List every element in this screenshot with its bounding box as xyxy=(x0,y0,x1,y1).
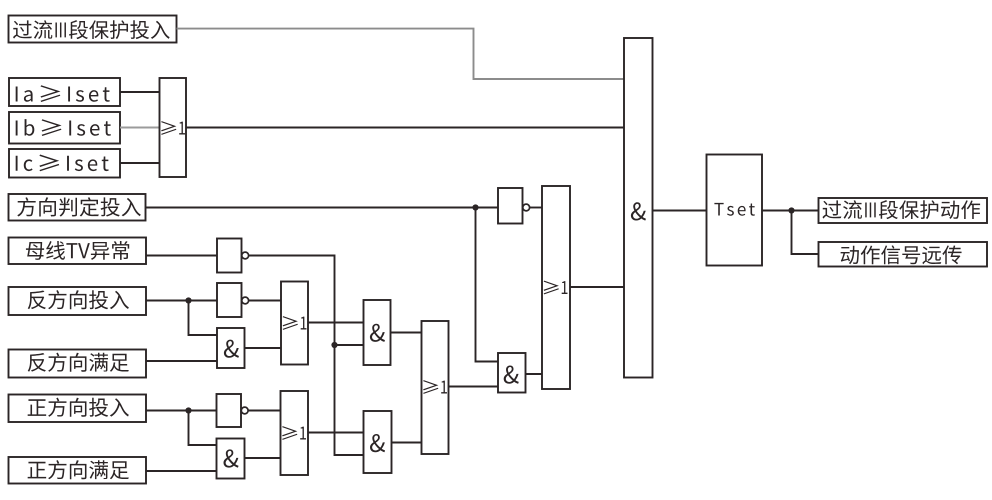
wire: Ic to OR U1 xyxy=(120,162,160,164)
wire: 过流III段保护投入 to main AND U8 xyxy=(177,29,625,79)
wire: AND U5c to OR U5 xyxy=(392,442,422,444)
bubble of NOT U2b xyxy=(242,297,249,304)
node: junction on 方向判定投入 line xyxy=(472,204,478,210)
input box: Ic>=Iset xyxy=(9,149,120,178)
wire: Ia to OR U1 xyxy=(120,91,160,93)
wire: junction to AND U4 xyxy=(335,344,364,346)
wire: junction down to AND U2c xyxy=(189,301,218,336)
input box: 母线TV异常 xyxy=(9,238,147,265)
or-gate U1 (>=1, phase currents) xyxy=(160,78,187,177)
wire: 方向判定投入 to NOT U2 xyxy=(146,207,499,209)
output box: 动作信号远传 xyxy=(819,242,988,267)
or-gate U7 (tall >=1) xyxy=(542,186,570,389)
not-gate U4b (正方向 inverter) xyxy=(217,394,242,427)
wire: NOT U4b to OR U5b xyxy=(248,410,280,412)
or-gate U3b (>=1 反方向) xyxy=(281,282,308,365)
wire: OR U5 to AND U6 xyxy=(449,386,499,388)
wire: AND U4 to OR U5 xyxy=(391,332,422,334)
input box: 反方向投入 xyxy=(9,287,147,315)
wire: Ib to OR U1 xyxy=(120,127,160,129)
wire: 正方向满足 to AND U4c xyxy=(146,470,217,472)
input box: 过流III段保护投入 xyxy=(9,16,177,43)
bubble of NOT U4b xyxy=(241,407,248,414)
wire: OR U1 output to main AND U8 xyxy=(186,127,624,129)
wire: NOT U3 output right then down to AND U5c xyxy=(249,256,364,456)
or-gate U5b (>=1 正方向) xyxy=(281,391,309,475)
node: junction on 正方向投入 line xyxy=(185,407,191,413)
wire: NOT U2 to OR U7 xyxy=(530,207,542,209)
timer Tset xyxy=(707,155,763,266)
input box: Ib>=Iset xyxy=(9,112,120,144)
not-gate U3 (TV异常 inverter) xyxy=(217,239,242,273)
wire: junction down to AND U4c xyxy=(189,411,217,446)
wire: 反方向投入 to NOT U2b xyxy=(146,300,217,302)
wire: Tset to outputs xyxy=(762,210,819,212)
wire: 正方向投入 to NOT U4b xyxy=(146,410,217,412)
output box: 过流III段保护动作 xyxy=(819,198,988,223)
node: junction on 反方向投入 line xyxy=(185,297,191,303)
and-gate U5c (正方向 path &) xyxy=(364,411,392,473)
node: output junction xyxy=(788,207,794,213)
input box: 方向判定投入 xyxy=(9,194,146,221)
bubble of NOT U2 xyxy=(523,204,530,211)
and-gate U4c (正方向 &) xyxy=(217,439,245,479)
and-gate U6 (方向闭锁 &) xyxy=(498,353,526,393)
wire: NOT U2b to OR U3b xyxy=(249,300,281,302)
input box: 正方向满足 xyxy=(9,457,147,484)
input box: 正方向投入 xyxy=(9,395,147,423)
not-gate U2 (方向判定 inverter) xyxy=(498,188,523,224)
and-gate U2c (反方向 &) xyxy=(217,328,245,368)
wire: AND U4c to OR U5b xyxy=(245,457,281,459)
wire: OR U3b to AND U4 xyxy=(308,322,364,324)
and-gate U8 (main &) xyxy=(624,38,653,378)
wire: AND U8 to Tset xyxy=(653,210,707,212)
wire: junction down to 远传 box xyxy=(792,211,819,255)
and-gate U4 (反方向 path &) xyxy=(364,300,391,365)
wire: AND U6 to OR U7 xyxy=(526,373,543,375)
wire: 母线TV异常 to NOT U3 xyxy=(146,255,217,257)
wire: 反方向满足 to AND U2c xyxy=(146,360,217,362)
input box: Ia>=Iset xyxy=(9,78,120,106)
node: junction on TV vertical xyxy=(331,342,337,348)
not-gate U2b (反方向 inverter) xyxy=(217,283,242,317)
bubble of NOT U3 xyxy=(242,252,249,259)
or-gate U5 (>=1 方向综合) xyxy=(422,321,449,454)
wire: OR U7 to main AND U8 xyxy=(570,286,624,288)
wire: junction down to AND U6 xyxy=(476,208,499,362)
wire: AND U2c to OR U3b xyxy=(245,347,282,349)
wire: OR U5b to AND U5c xyxy=(308,432,364,434)
input box: 反方向满足 xyxy=(9,350,147,378)
